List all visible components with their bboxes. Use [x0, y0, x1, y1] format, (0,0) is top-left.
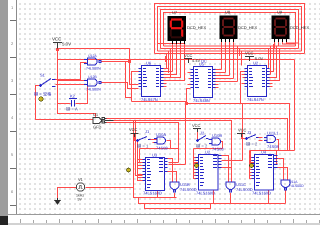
svg-text:U2: U2 [205, 150, 211, 155]
svg-text:S1: S1 [40, 73, 46, 78]
source V1 [76, 183, 84, 191]
svg-text:74LS00D: 74LS00D [289, 184, 304, 188]
svg-text:74LS47N: 74LS47N [247, 97, 264, 102]
wire gate2 out to counter [194, 149, 223, 163]
and gate U10B [209, 138, 221, 145]
display U9 [272, 16, 290, 43]
clock node dot stage3 [250, 164, 254, 168]
nand U11B down [170, 182, 179, 192]
wire nand1 out [174, 193, 176, 198]
wire bottom fb y208 [145, 204, 211, 209]
svg-text:U1: U1 [93, 112, 99, 117]
wire clock stage3 drop [250, 151, 255, 166]
switch J1 stage1 [137, 137, 151, 142]
wire nand2 inputs [222, 156, 232, 183]
svg-text:U11L1: U11L1 [267, 131, 279, 136]
wire U12B out [101, 83, 139, 89]
svg-text:74LS160D: 74LS160D [143, 191, 162, 196]
wire nand1 inputs [168, 159, 177, 183]
wire K2 right riser [84, 85, 88, 104]
wire stage3 left pin feed [250, 151, 255, 179]
wire stage2 left stubs [188, 73, 191, 85]
left gray strip [0, 0, 9, 225]
svg-text:U10A: U10A [156, 132, 166, 137]
svg-text:74LS00N: 74LS00N [86, 67, 101, 71]
svg-text:DCD_HEX: DCD_HEX [238, 25, 257, 30]
left strip bottom black block [0, 216, 9, 225]
wire top ring 2 [158, 7, 302, 52]
counter U4 [252, 155, 278, 191]
svg-text:键 = 1: 键 = 1 [137, 144, 149, 149]
counter U2b [196, 155, 222, 191]
svg-text:74S08: 74S08 [267, 144, 279, 149]
svg-text:5.0V: 5.0V [62, 42, 71, 47]
switch J2 stage2 [197, 136, 209, 142]
svg-text:U5: U5 [199, 62, 205, 67]
svg-text:74LS47N: 74LS47N [141, 97, 158, 102]
svg-text:74S08: 74S08 [156, 146, 168, 151]
annotation icon yellow [39, 97, 43, 101]
svg-text:DCD_HEX: DCD_HEX [290, 25, 309, 30]
wire long 5v rail [58, 59, 295, 61]
wire switch2 to gate2 [221, 142, 223, 149]
power VCC stage1 [131, 134, 139, 138]
wire U1 out C [107, 123, 179, 163]
nand U11C down [226, 182, 235, 192]
wire clock branch stage1 a [133, 121, 135, 198]
ground arrow [55, 198, 60, 204]
wire bottom fb y203 [139, 198, 286, 204]
decoder U5 [191, 67, 216, 98]
wire S1 to U1 [36, 86, 93, 120]
svg-text:U6: U6 [146, 61, 152, 66]
wire U2 output comb [269, 44, 280, 87]
svg-text:VCC: VCC [192, 123, 201, 128]
wire display2 riser jogs [222, 46, 234, 49]
junction U12A out [128, 60, 131, 63]
svg-text:U12A: U12A [88, 54, 97, 58]
wire right low horizontal y150 [250, 150, 295, 152]
wire band line 2 [158, 50, 302, 52]
wire gate3 out to counter [251, 140, 279, 163]
wire nand3 out [285, 191, 287, 204]
wire vcc s3 stage3 [242, 133, 247, 139]
wire band line 5 short [158, 43, 173, 45]
wire nand2 out [230, 193, 232, 204]
wire stage2 left pin feed [194, 149, 199, 179]
svg-text:74S08: 74S08 [212, 147, 224, 152]
wire clock branch stage1 b [136, 121, 143, 176]
svg-text:VCC: VCC [245, 51, 254, 56]
oscillator U1 [93, 118, 108, 124]
svg-text:U10B: U10B [212, 133, 222, 138]
wire U1 out mid dark [105, 119, 114, 123]
wire stage1 left pin feed [138, 142, 143, 181]
svg-text:74LS160D: 74LS160D [196, 191, 215, 196]
display U8 [220, 16, 238, 43]
and gate U10A [154, 137, 166, 144]
svg-text:键 = 2: 键 = 2 [196, 144, 208, 149]
bottom ruler [8, 214, 320, 216]
svg-text:U9: U9 [277, 10, 283, 15]
wire stage1 bcd route [132, 72, 186, 165]
wire top ring 3 [161, 10, 299, 49]
power VCC above U5 [184, 59, 192, 64]
decoder U6 [139, 66, 164, 97]
clock node dot stage1 [127, 168, 131, 172]
svg-text:U12B: U12B [88, 75, 97, 79]
wire stage3 left stubs [242, 75, 245, 84]
nand U12B [84, 79, 101, 86]
junction stage2 bcd [185, 102, 188, 105]
svg-text:U3: U3 [152, 153, 158, 158]
svg-text:GFD: GFD [93, 125, 102, 130]
wire display3 leg drops [269, 42, 299, 75]
wire nand3 inputs [278, 159, 288, 181]
wire stage3 bottom pin drop [268, 191, 270, 204]
wire U12A in bottom from S1 [56, 63, 87, 80]
wire switch3 to gate3 [259, 138, 263, 141]
svg-text:K2: K2 [70, 94, 76, 99]
svg-text:V1: V1 [78, 177, 84, 182]
wire band line 3 [161, 48, 299, 50]
wire display2 leg drops [222, 42, 234, 76]
wire U2m top feed [240, 49, 242, 66]
and gate U10C [264, 136, 276, 143]
svg-text:U7: U7 [172, 10, 178, 15]
svg-text:U2: U2 [253, 61, 259, 66]
left ruler [8, 0, 17, 215]
counter U3 [143, 158, 168, 191]
switch S1 [40, 79, 56, 87]
power 5.0V above U2 [245, 57, 254, 62]
svg-text:74LS00D: 74LS00D [180, 187, 197, 192]
wire U6 output risers [166, 49, 171, 78]
svg-text:键 = 2: 键 = 2 [246, 142, 258, 147]
wire top ring 4 inner [164, 13, 296, 47]
wire right pin jog stage3 [277, 151, 278, 164]
wire gate1 out to counter [140, 141, 179, 163]
svg-text:键 = 空格: 键 = 空格 [34, 92, 52, 97]
wire top ring 1 outer [155, 4, 305, 54]
wire vcc1 down to K2 [57, 49, 59, 104]
wire U1 out B red part [114, 121, 232, 183]
wire U1 out A [107, 119, 288, 151]
decoder U2 [245, 66, 270, 97]
wire band line 4 [164, 45, 296, 47]
power VCC V50 top-left [53, 43, 62, 49]
pushbutton K2 [58, 99, 84, 107]
wire band line 1 [155, 53, 305, 55]
wire vcc s2 stage2 [197, 132, 199, 141]
wire stage1 bottom pin drop [157, 191, 159, 198]
wire V1 right riser [86, 187, 134, 189]
wire stage3 bcd route [241, 72, 290, 151]
junction vcc rail [56, 48, 59, 51]
wire right vertical a [294, 60, 296, 151]
wire U12A out [101, 62, 139, 102]
power VCC stage2 [193, 129, 201, 133]
svg-text:U8: U8 [225, 10, 231, 15]
wire switch1 to gate1 [151, 140, 157, 143]
wire U6 output comb [164, 44, 185, 87]
wire K2 left drop to U1 [58, 104, 96, 118]
svg-text:5V: 5V [78, 198, 83, 202]
wire stage2 bottom pin drop [213, 191, 215, 204]
wire vcc1 branch [58, 49, 130, 62]
switch J3 stage3 [246, 135, 259, 140]
power VCC stage3 [237, 134, 245, 138]
wire V1 left to ground [58, 188, 77, 199]
display U7 [168, 16, 187, 44]
svg-text:U4: U4 [261, 150, 267, 155]
wire vcc s1 stage1 [135, 137, 138, 141]
svg-text:键 = A: 键 = A [66, 107, 78, 112]
clock node dot stage2 [195, 164, 199, 168]
svg-text:74LS00N: 74LS00N [86, 88, 101, 92]
wire U12B in [56, 81, 88, 104]
svg-text:74LS48N: 74LS48N [193, 98, 210, 103]
wire bottom fb y197 [134, 172, 177, 198]
nand U11A down [281, 180, 290, 190]
wire display1 leg drops [173, 44, 185, 52]
svg-text:74LS160D: 74LS160D [252, 191, 271, 196]
wire stage2 bcd route [187, 89, 243, 161]
nand U12A [84, 58, 101, 65]
svg-text:DCD_HEX: DCD_HEX [187, 25, 206, 30]
svg-text:VCC: VCC [238, 128, 247, 133]
svg-text:74LS00D: 74LS00D [236, 187, 253, 192]
svg-text:VCC: VCC [129, 127, 138, 132]
wire U5 output comb [216, 46, 238, 88]
svg-text:VCC: VCC [52, 37, 61, 42]
